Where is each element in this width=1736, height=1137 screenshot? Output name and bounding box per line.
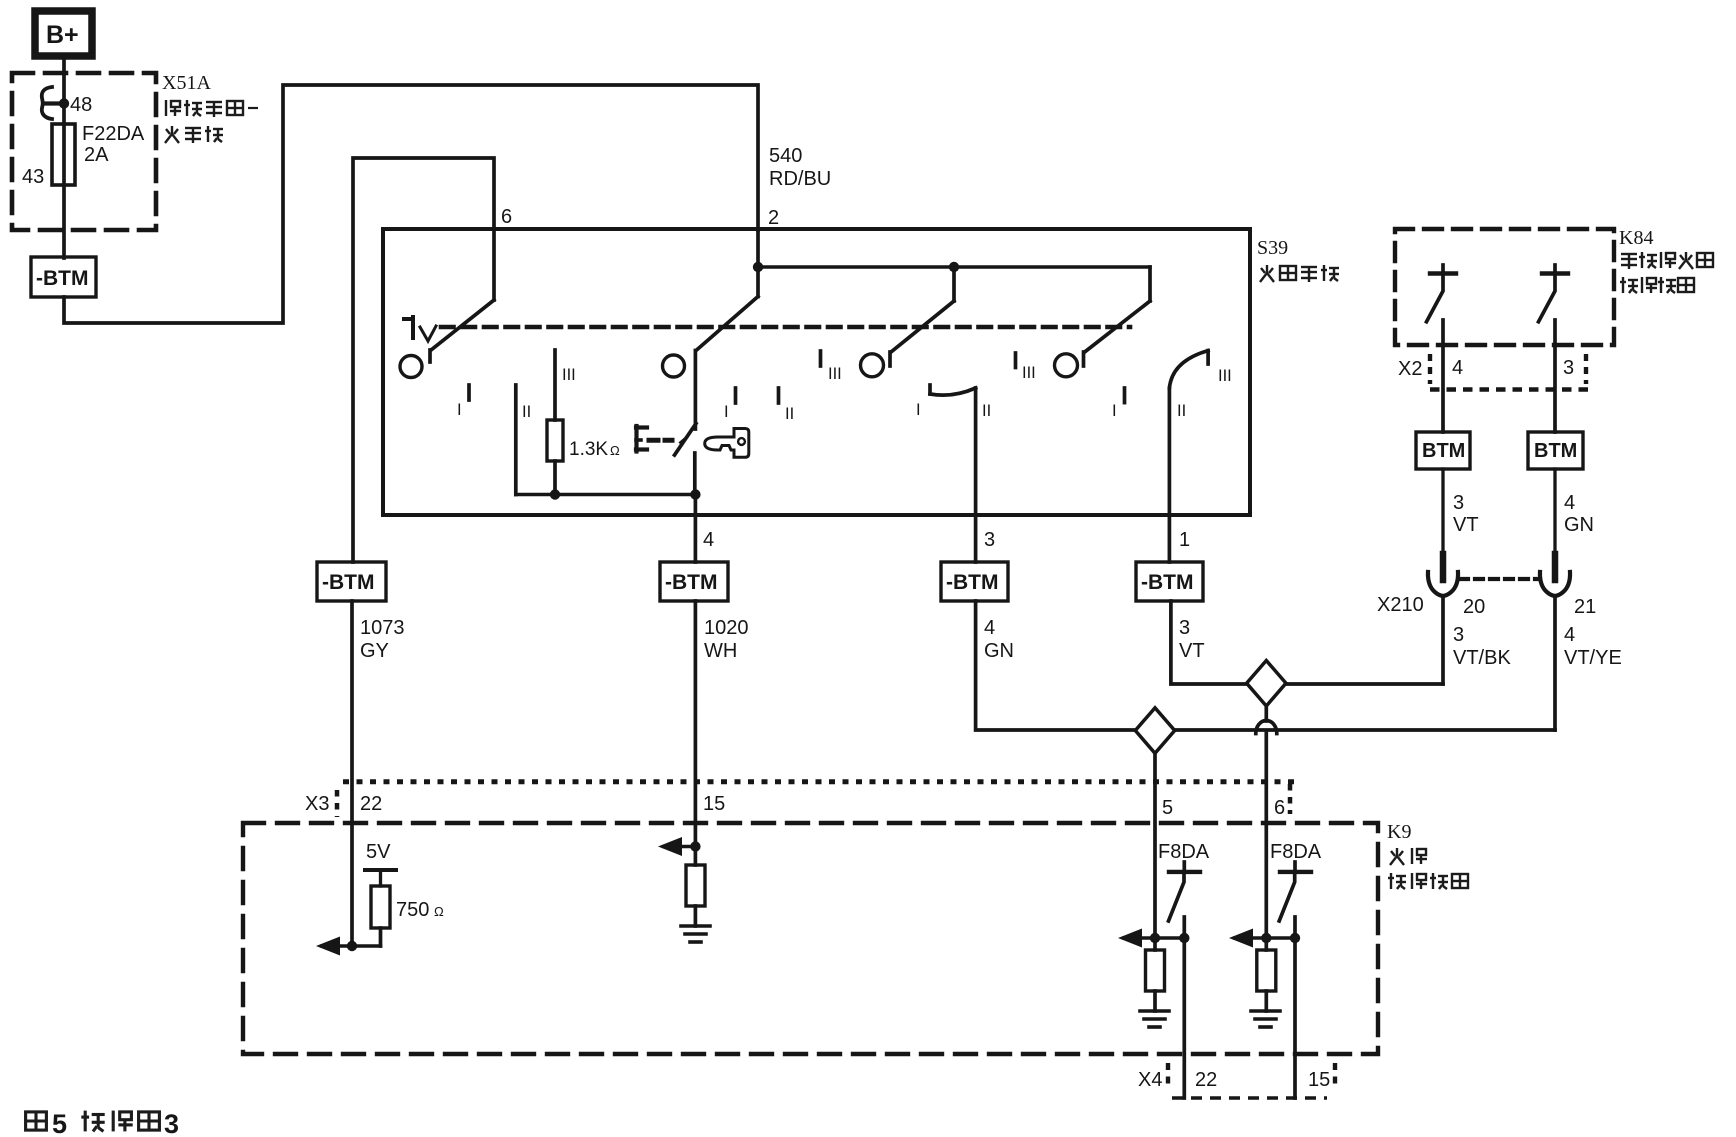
svg-text:22: 22: [1195, 1069, 1217, 1091]
node pin2 bus junction: [753, 262, 763, 272]
svg-text:I: I: [724, 403, 729, 421]
svg-text:II: II: [1177, 402, 1186, 420]
svg-text:F22DA: F22DA: [82, 123, 145, 145]
resistor value 1.3K ohm: [569, 439, 620, 460]
connector X4 dashed strip: [1168, 1063, 1335, 1098]
svg-text:3: 3: [1179, 617, 1190, 639]
wire resistor to arrow bar: [379, 928, 383, 946]
ignition switch S39 box: [383, 229, 1250, 515]
svg-text:540: 540: [769, 145, 802, 167]
K84 switch 2 wire to X2-3: [1553, 320, 1557, 432]
resistor on pin 5: [1146, 950, 1165, 991]
arrowhead left on pin 15: [658, 837, 682, 856]
svg-text:5V: 5V: [366, 841, 391, 863]
svg-text:X2: X2: [1398, 358, 1422, 380]
ground symbol pin 5: [1140, 1011, 1169, 1027]
svg-text:III: III: [1022, 364, 1036, 382]
wafer 4 contact circle: [1055, 354, 1078, 377]
wire resistor to bus: [553, 461, 557, 495]
resistor on pin 15: [686, 865, 705, 906]
key switch blade: [675, 424, 697, 456]
svg-text:20: 20: [1463, 596, 1485, 618]
wafer 2 tick I: [734, 388, 738, 403]
harness connector X3 dotted line: [337, 782, 1295, 817]
svg-text:21: 21: [1574, 596, 1596, 618]
start contact curved blade: [1169, 351, 1208, 389]
node wafer3 bus junction: [949, 262, 959, 272]
svg-text:15: 15: [1308, 1069, 1330, 1091]
wire wafer2 blade to key switch to bus: [693, 351, 697, 495]
K9 chinese label 控制模块: [1388, 873, 1468, 889]
ground symbol pin 15: [681, 926, 710, 942]
K9 signal arrow bar on pin 22: [322, 944, 381, 948]
svg-text:VT: VT: [1453, 514, 1479, 536]
splice diamond on 4 GN: [1135, 708, 1174, 754]
svg-text:15: 15: [703, 793, 725, 815]
svg-text:3: 3: [1453, 624, 1464, 646]
figure caption 图5 电路图3: [26, 1109, 179, 1137]
terminal arc symbol at pin 48: [42, 87, 64, 119]
X51A chinese label line2 仪表板: [165, 126, 223, 143]
svg-text:F8DA: F8DA: [1270, 841, 1322, 863]
svg-text:K9: K9: [1387, 821, 1411, 843]
wire X210-20 riser: [1441, 596, 1445, 684]
destination tag -BTM left: [31, 257, 96, 297]
K9 signal arrow bar on pin 6: [1235, 936, 1295, 940]
K84 switch 1 contact bar: [1430, 265, 1456, 274]
wafer 1 position tick I: [467, 385, 471, 400]
svg-text:X4: X4: [1138, 1069, 1162, 1091]
body control module K9 dashed box: [243, 823, 1378, 1054]
svg-text:III: III: [562, 366, 576, 384]
node switch B junction: [1290, 933, 1300, 943]
X210 dashed connector line: [1460, 577, 1540, 581]
F8DA switch B wire to X4-15: [1293, 917, 1297, 1098]
key switch dashed actuator line: [649, 438, 672, 443]
svg-text:5: 5: [1162, 797, 1173, 819]
battery terminal B+: [35, 11, 92, 56]
svg-text:4: 4: [703, 529, 714, 551]
svg-text:6: 6: [501, 206, 512, 228]
wire wafer 4 drop: [1148, 267, 1152, 301]
resistor 1.3K: [547, 420, 563, 461]
destination tag BTM on K84 pin 4 wire: [1416, 432, 1470, 469]
mechanical link dashed line: [441, 325, 1130, 330]
wafer 3 arc contact to pin 3: [930, 385, 976, 395]
splice diamond on 3 VT: [1247, 661, 1286, 707]
svg-text:2: 2: [768, 207, 779, 229]
wire 1073 GY to K9: [350, 601, 354, 946]
node pin 6 junction: [1261, 933, 1271, 943]
K84 switch 2 contact bar: [1542, 265, 1568, 274]
wire 3 VT down and across: [1171, 601, 1443, 684]
X210 pin 20 female terminal: [1428, 572, 1458, 596]
svg-text:-BTM: -BTM: [946, 571, 998, 594]
K84 chinese label 无钥匙进入: [1621, 252, 1713, 269]
node key switch bus junction: [690, 489, 700, 499]
svg-text:I: I: [916, 401, 921, 419]
F8DA switch A blade: [1169, 872, 1185, 921]
wire pin15 bar to resistor: [694, 847, 698, 866]
destination tag BTM on K84 pin 3 wire: [1528, 432, 1583, 469]
wire -BTM to ignition switch pin 2 (540 RD/BU): [64, 85, 758, 323]
svg-text:II: II: [785, 405, 794, 423]
wire X210-21 riser: [1553, 596, 1557, 730]
svg-text:S39: S39: [1257, 237, 1288, 259]
destination tag -BTM on 4 GN: [941, 562, 1008, 601]
svg-text:4: 4: [1564, 492, 1575, 514]
svg-text:III: III: [1218, 367, 1232, 385]
F8DA switch B contact bar: [1280, 862, 1311, 872]
svg-text:II: II: [982, 402, 991, 420]
svg-text:K84: K84: [1619, 227, 1653, 249]
svg-text:Ω: Ω: [434, 904, 444, 919]
F8DA switch A wire to X4-22: [1182, 917, 1186, 1098]
svg-text:X51A: X51A: [162, 72, 211, 94]
svg-text:1073: 1073: [360, 617, 405, 639]
wafer 3 tick III: [1014, 353, 1018, 368]
svg-text:III: III: [828, 365, 842, 383]
svg-text:48: 48: [70, 94, 92, 116]
svg-text:VT: VT: [1179, 640, 1205, 662]
fuse F22DA 2A: [52, 124, 75, 185]
connector X2 dashed strip: [1430, 354, 1588, 390]
resistor on pin 6: [1257, 950, 1276, 991]
5V supply bar: [365, 870, 396, 886]
X210 pin 20 male terminal: [1440, 554, 1447, 580]
wire splice to X3 pin 5: [1153, 753, 1157, 938]
X3 right tick: [1288, 784, 1293, 814]
destination tag -BTM on 3 VT: [1136, 562, 1203, 601]
crossover hop arc: [1256, 721, 1277, 734]
wire splice down to hop: [1264, 706, 1268, 721]
svg-text:X210: X210: [1377, 594, 1424, 616]
arrowhead left on pin 5: [1118, 929, 1142, 948]
svg-text:3: 3: [1563, 357, 1574, 379]
wafer 3 contact circle: [861, 354, 884, 377]
node pin 5 junction: [1150, 933, 1160, 943]
svg-text:1020: 1020: [704, 617, 749, 639]
svg-text:GN: GN: [984, 640, 1014, 662]
destination tag -BTM on 1020 WH: [660, 562, 728, 601]
svg-text:BTM: BTM: [1534, 440, 1577, 462]
arrowhead left on pin 6: [1229, 929, 1253, 948]
switch wafer 2 blade: [696, 297, 758, 351]
svg-text:-BTM: -BTM: [322, 571, 374, 594]
svg-text:Ω: Ω: [610, 443, 620, 458]
K84 switch 1 blade: [1427, 274, 1444, 322]
node pin 15 junction: [690, 841, 700, 851]
svg-text:I: I: [457, 401, 462, 419]
wire pin5 bar to resistor: [1153, 938, 1157, 950]
K9 signal arrow bar on pin 5: [1124, 936, 1184, 940]
node pin 48 junction: [59, 98, 69, 108]
wafer 1 contact circle: [400, 356, 422, 378]
svg-text:4: 4: [1564, 624, 1575, 646]
svg-text:BTM: BTM: [1422, 440, 1465, 462]
key switch E bracket: [636, 426, 647, 452]
svg-text:VT/BK: VT/BK: [1453, 647, 1511, 669]
svg-text:GN: GN: [1564, 514, 1594, 536]
wire S39 pin 2 drop: [756, 230, 760, 297]
node pin 22 junction: [347, 941, 357, 951]
svg-text:22: 22: [360, 793, 382, 815]
svg-text:-BTM: -BTM: [1141, 571, 1193, 594]
switch wafer 1 blade: [430, 300, 494, 362]
svg-text:3: 3: [1453, 492, 1464, 514]
svg-text:II: II: [522, 403, 531, 421]
mechanical link hook symbol: [404, 317, 436, 341]
ground symbol pin 6: [1251, 1011, 1280, 1027]
wire S39 pin 3 (4 GN): [974, 388, 978, 562]
svg-text:3: 3: [984, 529, 995, 551]
wire position II to bus: [514, 385, 518, 495]
X51A chinese label line1 保险丝盒 -: [166, 100, 258, 117]
wafer 2 tick II: [777, 388, 781, 403]
svg-text:-BTM: -BTM: [36, 267, 88, 290]
wire pin6 bar to resistor: [1264, 938, 1268, 950]
svg-text:6: 6: [1274, 797, 1285, 819]
wire wafer 3 drop: [952, 267, 956, 301]
wire resistor to ground pin5: [1153, 991, 1157, 1011]
svg-text:-BTM: -BTM: [665, 571, 717, 594]
svg-text:I: I: [1112, 402, 1117, 420]
K84 switch 1 wire to X2-4: [1441, 320, 1445, 432]
wire B+ to fuse to -BTM tag: [62, 57, 66, 258]
svg-text:43: 43: [22, 166, 44, 188]
K84 chinese label 控制模块: [1620, 277, 1694, 293]
svg-text:3: 3: [164, 1109, 179, 1137]
key icon: [705, 429, 749, 458]
feed bus inside S39: [758, 265, 1150, 269]
F8DA switch A contact bar: [1169, 862, 1200, 872]
X210 pin 21 male terminal: [1552, 554, 1559, 580]
node resistor bus junction: [550, 489, 560, 499]
node switch A junction: [1179, 933, 1189, 943]
svg-text:F8DA: F8DA: [1158, 841, 1210, 863]
wire hop to X3 pin 6: [1264, 734, 1268, 939]
wire BTM to X210 pin 20: [1441, 469, 1444, 558]
resistor 750 ohm: [371, 886, 390, 928]
svg-text:GY: GY: [360, 640, 389, 662]
X210 pin 21 female terminal: [1540, 572, 1570, 596]
svg-text:5: 5: [52, 1109, 67, 1137]
svg-text:4: 4: [984, 617, 995, 639]
bus inside S39 to pin 4: [516, 493, 696, 497]
wire BTM to X210 pin 21: [1553, 469, 1556, 558]
wafer 4 tick I: [1123, 388, 1127, 403]
destination tag -BTM on 1073 GY: [317, 562, 386, 601]
wire S39 pin 1 (3 VT): [1168, 388, 1172, 562]
switch wafer 3 blade: [890, 301, 954, 366]
keyless module K84 dashed box: [1395, 229, 1614, 345]
svg-text:WH: WH: [704, 640, 737, 662]
wire pin 4 to -BTM (1020 WH): [694, 495, 698, 563]
wire 1020 WH to K9: [694, 601, 698, 847]
svg-text:RD/BU: RD/BU: [769, 168, 831, 190]
svg-text:4: 4: [1452, 357, 1463, 379]
resistor value 750 ohm: [396, 899, 444, 921]
svg-text:X3: X3: [305, 793, 329, 815]
X3 label tick: [335, 790, 340, 817]
wafer 2 contact circle: [663, 355, 685, 377]
K9 chinese label 车身: [1390, 848, 1427, 865]
svg-text:1.3K: 1.3K: [569, 439, 608, 460]
switch wafer 4 blade: [1084, 301, 1151, 366]
svg-text:2A: 2A: [84, 144, 109, 166]
svg-text:750: 750: [396, 899, 429, 921]
wire S39 pin 6 to -BTM (1073 GY): [353, 158, 494, 562]
K9 signal arrow bar on pin 15: [664, 845, 695, 849]
fuse box X51A dashed outline: [12, 73, 156, 230]
wire resistor to ground: [694, 906, 698, 926]
wafer 2 tick III: [819, 351, 823, 366]
S39 chinese label 点火开关: [1260, 265, 1339, 282]
arrowhead left on pin 22: [316, 937, 340, 956]
wire 4 GN down and across: [976, 601, 1555, 730]
F8DA switch B blade: [1279, 872, 1295, 921]
svg-text:1: 1: [1179, 529, 1190, 551]
K84 switch 2 blade: [1539, 274, 1556, 322]
wire resistor to ground pin6: [1264, 991, 1268, 1011]
wire position III to resistor: [553, 350, 557, 420]
svg-text:VT/YE: VT/YE: [1564, 647, 1622, 669]
svg-text:B+: B+: [46, 21, 79, 49]
